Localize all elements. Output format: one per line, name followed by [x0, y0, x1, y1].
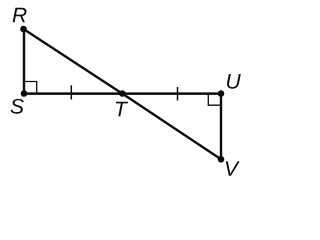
node R: [20, 26, 27, 33]
wire segment RTV (diagonal through T): [24, 29, 222, 159]
wire segment RS (vertical left side): [23, 29, 25, 94]
node T: [119, 90, 126, 97]
right angle marker at S: [24, 82, 37, 94]
label U: [227, 74, 241, 89]
label V: [226, 161, 240, 175]
wire segment SU (horizontal base through T): [24, 92, 221, 95]
tick mark on ST: [70, 85, 72, 99]
right angle marker at U: [208, 94, 221, 106]
label T: [116, 102, 128, 116]
node U: [218, 90, 225, 97]
wire segment UV (vertical right side): [220, 94, 222, 160]
node S: [21, 90, 28, 97]
label S: [11, 99, 24, 114]
node V: [218, 156, 225, 163]
tick mark on TU: [177, 87, 179, 101]
label R: [13, 8, 27, 22]
